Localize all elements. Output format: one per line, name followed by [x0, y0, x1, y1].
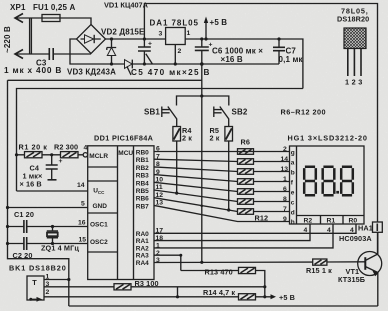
- voltage regulator DA1: [166, 28, 186, 45]
- svg-text:RB5: RB5: [136, 188, 149, 195]
- svg-text:g: g: [291, 149, 295, 156]
- wire RB0-g: [154, 151, 290, 153]
- svg-text:7: 7: [283, 206, 287, 213]
- svg-text:4: 4: [304, 227, 308, 234]
- svg-text:ZQ1 4 МГц: ZQ1 4 МГц: [41, 244, 79, 253]
- resistor R7: [238, 159, 254, 165]
- wire: double vertical cord: [30, 19, 32, 54]
- buzzer HA1: [373, 222, 383, 232]
- resistor R4: [173, 127, 181, 142]
- svg-text:R1: R1: [327, 218, 336, 225]
- svg-text:6: 6: [283, 186, 287, 193]
- svg-text:9: 9: [283, 216, 287, 223]
- node: C6 top: [200, 37, 203, 40]
- svg-text:SB2: SB2: [232, 108, 248, 117]
- wire: top mains: [15, 18, 91, 25]
- 7-seg digit 2: [323, 167, 335, 195]
- svg-text:16: 16: [78, 220, 86, 227]
- wire OSC2 line: [8, 243, 88, 245]
- wire: R4 to RB5: [176, 141, 178, 193]
- wire: buzzer to collector: [377, 232, 379, 255]
- svg-text:+5 В: +5 В: [279, 293, 295, 302]
- capacitor C3: [49, 48, 53, 60]
- node: C6 bottom: [200, 62, 204, 66]
- svg-text:e: e: [291, 189, 295, 196]
- ground rail of PSU: [112, 63, 280, 65]
- svg-text:VD1 КЦ407А: VD1 КЦ407А: [104, 1, 149, 10]
- wire RB7-h: [154, 205, 290, 221]
- svg-text:4: 4: [350, 227, 354, 234]
- svg-text:ХР1: ХР1: [10, 3, 26, 12]
- svg-text:8: 8: [283, 196, 287, 203]
- svg-text:14: 14: [77, 182, 85, 189]
- svg-text:b: b: [291, 169, 295, 176]
- wire: unreg loop to buzzer (top border): [144, 4, 377, 223]
- capacitor C7: [278, 39, 280, 64]
- svg-text:OSC2: OSC2: [90, 239, 108, 246]
- svg-text:h: h: [291, 219, 295, 226]
- svg-text:~220 В: ~220 В: [3, 26, 12, 53]
- wire: ground drop from PSU rail to buttons: [201, 64, 203, 96]
- wire: +5V long line: [17, 89, 303, 192]
- node: buttons to gnd: [200, 94, 203, 97]
- svg-text:RB1: RB1: [136, 157, 149, 164]
- wire RA4 to R15 and VT1: [154, 261, 365, 264]
- wire RA1 to R2: [154, 224, 310, 241]
- decimal point: [336, 191, 339, 194]
- svg-text:VD3 КД243А: VD3 КД243А: [67, 68, 116, 77]
- wire: buttons common down to RA4: [201, 96, 203, 262]
- wire: DQ to VDD jumper: [177, 287, 179, 297]
- svg-text:+: +: [148, 41, 152, 48]
- wire RB1-a: [154, 159, 290, 161]
- svg-text:15: 15: [79, 237, 87, 244]
- TO-92 legs: [348, 49, 361, 77]
- svg-text:×16 В: ×16 В: [221, 55, 243, 64]
- TO-92 body: [344, 28, 366, 49]
- XP1 pin arrow top: [15, 14, 23, 23]
- svg-text:3: 3: [358, 78, 362, 87]
- svg-text:1: 1: [345, 78, 349, 87]
- svg-text:RA3: RA3: [136, 253, 149, 260]
- svg-text:R1 20 к: R1 20 к: [19, 143, 48, 152]
- resistor R9: [238, 179, 254, 185]
- svg-text:R2: R2: [304, 218, 313, 225]
- svg-text:1: 1: [283, 176, 287, 183]
- wire: BK1 pin3 VDD line: [44, 286, 265, 288]
- +5V arrow symbol: [205, 21, 207, 39]
- wire RA3 to R13: [154, 255, 181, 270]
- capacitor C1: [24, 220, 27, 233]
- svg-text:GND: GND: [93, 203, 108, 210]
- resistor R6: [238, 149, 254, 155]
- digit select strip: [297, 215, 365, 217]
- wire: BK1 pin2 DQ line: [44, 296, 239, 298]
- fuse FU1: [42, 15, 60, 22]
- svg-text:× 16 В: × 16 В: [20, 180, 42, 189]
- svg-text:RB6: RB6: [136, 196, 149, 203]
- display HG1 box: [290, 146, 365, 224]
- wire: +5V rail from DA1: [185, 39, 303, 89]
- svg-text:VD2 Д815Е: VD2 Д815Е: [101, 28, 145, 37]
- svg-text:1 мк х 400 В: 1 мк х 400 В: [4, 65, 62, 75]
- svg-text:RA4: RA4: [136, 260, 149, 267]
- svg-text:RB4: RB4: [136, 180, 149, 187]
- 7-seg digit 1: [304, 167, 316, 195]
- svg-text:R2 300: R2 300: [54, 143, 78, 152]
- svg-text:BK1 DS18B20: BK1 DS18B20: [9, 264, 67, 273]
- wire RB3-f: [154, 175, 290, 182]
- svg-text:FU1 0,25 А: FU1 0,25 А: [33, 3, 75, 12]
- MCU DD1 PIC16F84A body: [88, 146, 154, 280]
- svg-text:4: 4: [84, 145, 88, 152]
- svg-text:КТ315Б: КТ315Б: [338, 275, 365, 284]
- svg-text:RB2: RB2: [136, 165, 149, 172]
- resistor R1: [25, 152, 43, 158]
- svg-text:С5 470 мк×25 В: С5 470 мк×25 В: [131, 68, 211, 77]
- svg-text:DD1 PIC16F84A: DD1 PIC16F84A: [94, 134, 154, 143]
- wire: BK1 pin1 to bottom gnd: [44, 280, 378, 307]
- resistor R14: [239, 294, 256, 300]
- wire RB4-e: [154, 182, 290, 191]
- crystal ZQ1: [51, 225, 54, 228]
- svg-text:4: 4: [327, 227, 331, 234]
- wire MCLR line: [17, 154, 84, 156]
- resistor R3: [114, 284, 131, 290]
- svg-text:R6: R6: [241, 138, 251, 147]
- wire RB6-d: [154, 198, 290, 212]
- svg-text:d: d: [291, 209, 295, 216]
- resistor R13: [239, 267, 256, 273]
- 7-seg digit 3: [341, 167, 353, 195]
- capacitor C5: [143, 39, 145, 64]
- resistor R10: [238, 189, 254, 195]
- svg-text:13: 13: [281, 166, 289, 173]
- wire: R14 to +5V arrow: [256, 296, 273, 298]
- svg-text:С1 20: С1 20: [14, 210, 34, 219]
- resistor R2: [61, 152, 79, 158]
- svg-text:c: c: [291, 199, 295, 206]
- bridge rectifier VD1: [77, 25, 106, 54]
- wire RB5-c: [154, 190, 290, 202]
- diode VD3: [125, 60, 133, 69]
- wire RB2-b: [154, 167, 290, 172]
- svg-text:Т: Т: [32, 278, 37, 287]
- svg-text:R0: R0: [349, 218, 358, 225]
- transistor VT1: [358, 252, 382, 276]
- svg-text:R13 470: R13 470: [205, 268, 233, 277]
- svg-text:2: 2: [46, 289, 50, 296]
- svg-text:OSC1: OSC1: [90, 221, 108, 228]
- svg-text:R6–R12 200: R6–R12 200: [281, 108, 326, 117]
- svg-text:2: 2: [178, 48, 182, 55]
- resistor R12: [238, 209, 254, 215]
- svg-text:RA0: RA0: [136, 231, 149, 238]
- wire: ground long line: [8, 79, 202, 81]
- svg-text:5: 5: [81, 201, 85, 208]
- resistor R15: [313, 259, 327, 265]
- wire: DA1 pin2 to ground: [174, 45, 176, 65]
- svg-text:DS18R20: DS18R20: [337, 15, 369, 24]
- node: DA1 pin2 gnd: [174, 62, 177, 65]
- svg-text:2 к: 2 к: [210, 134, 220, 143]
- svg-text:0,1 мк: 0,1 мк: [279, 55, 304, 64]
- wire R13 line: [181, 271, 265, 297]
- capacitor C4: [51, 155, 53, 180]
- svg-text:MCLR: MCLR: [89, 153, 108, 160]
- svg-text:HA1: HA1: [358, 224, 373, 233]
- svg-text:3: 3: [159, 31, 163, 38]
- svg-text:НС0903А: НС0903А: [339, 234, 372, 243]
- svg-text:R14 4,7 к: R14 4,7 к: [203, 288, 235, 297]
- svg-text:2 к: 2 к: [182, 134, 192, 143]
- wire: R5 to c line: [228, 141, 230, 210]
- svg-text:MCU: MCU: [118, 150, 133, 157]
- wire OSC1 line: [8, 226, 88, 228]
- svg-text:2: 2: [352, 78, 356, 87]
- svg-text:+5 В: +5 В: [210, 18, 228, 27]
- resistor R5: [225, 127, 233, 142]
- wire: Ucc line: [17, 190, 88, 192]
- node: VD2 bottom: [110, 62, 113, 65]
- node: VD2 top: [110, 37, 113, 40]
- wire: bridge minus to ground rail: [70, 39, 112, 64]
- wire: bridge plus rail to DA1: [106, 38, 166, 40]
- svg-text:HG1 3×LSD3212-20: HG1 3×LSD3212-20: [288, 134, 368, 143]
- wire: button bracket: [177, 96, 229, 106]
- zener VD2: [111, 39, 113, 64]
- svg-text:1: 1: [187, 30, 191, 37]
- wire RA0 to R0: [154, 224, 356, 233]
- node: C5 bottom: [143, 62, 146, 65]
- svg-text:R12: R12: [255, 214, 269, 223]
- resistor R11: [238, 199, 254, 205]
- temp sensor BK1: [27, 276, 44, 300]
- svg-text:RB7: RB7: [136, 203, 149, 210]
- svg-text:С2 20: С2 20: [13, 251, 33, 260]
- svg-text:RA1: RA1: [136, 238, 149, 245]
- wire: GND pin line: [8, 207, 88, 209]
- svg-text:R15 1 к: R15 1 к: [306, 266, 332, 275]
- capacitor C6: [201, 39, 203, 64]
- resistor R8: [238, 169, 254, 175]
- svg-text:SB1: SB1: [144, 108, 160, 117]
- capacitor C2: [24, 237, 27, 250]
- svg-text:RB0: RB0: [136, 150, 149, 157]
- svg-text:DA1 78L05: DA1 78L05: [150, 19, 199, 28]
- wire: bottom mains: [15, 53, 91, 55]
- node: R1 R2 C4: [50, 153, 53, 156]
- svg-text:R3 100: R3 100: [135, 279, 159, 288]
- svg-text:RA2: RA2: [136, 245, 149, 252]
- svg-text:14: 14: [281, 156, 289, 163]
- svg-text:2: 2: [283, 146, 287, 153]
- svg-text:RB3: RB3: [136, 173, 149, 180]
- svg-text:a: a: [291, 159, 295, 166]
- node: C7 top: [277, 37, 280, 40]
- node: C5 top: [143, 37, 146, 40]
- wire RA2 to R1: [154, 224, 333, 248]
- svg-text:+: +: [59, 158, 63, 165]
- XP1 pin arrow bottom: [15, 50, 23, 59]
